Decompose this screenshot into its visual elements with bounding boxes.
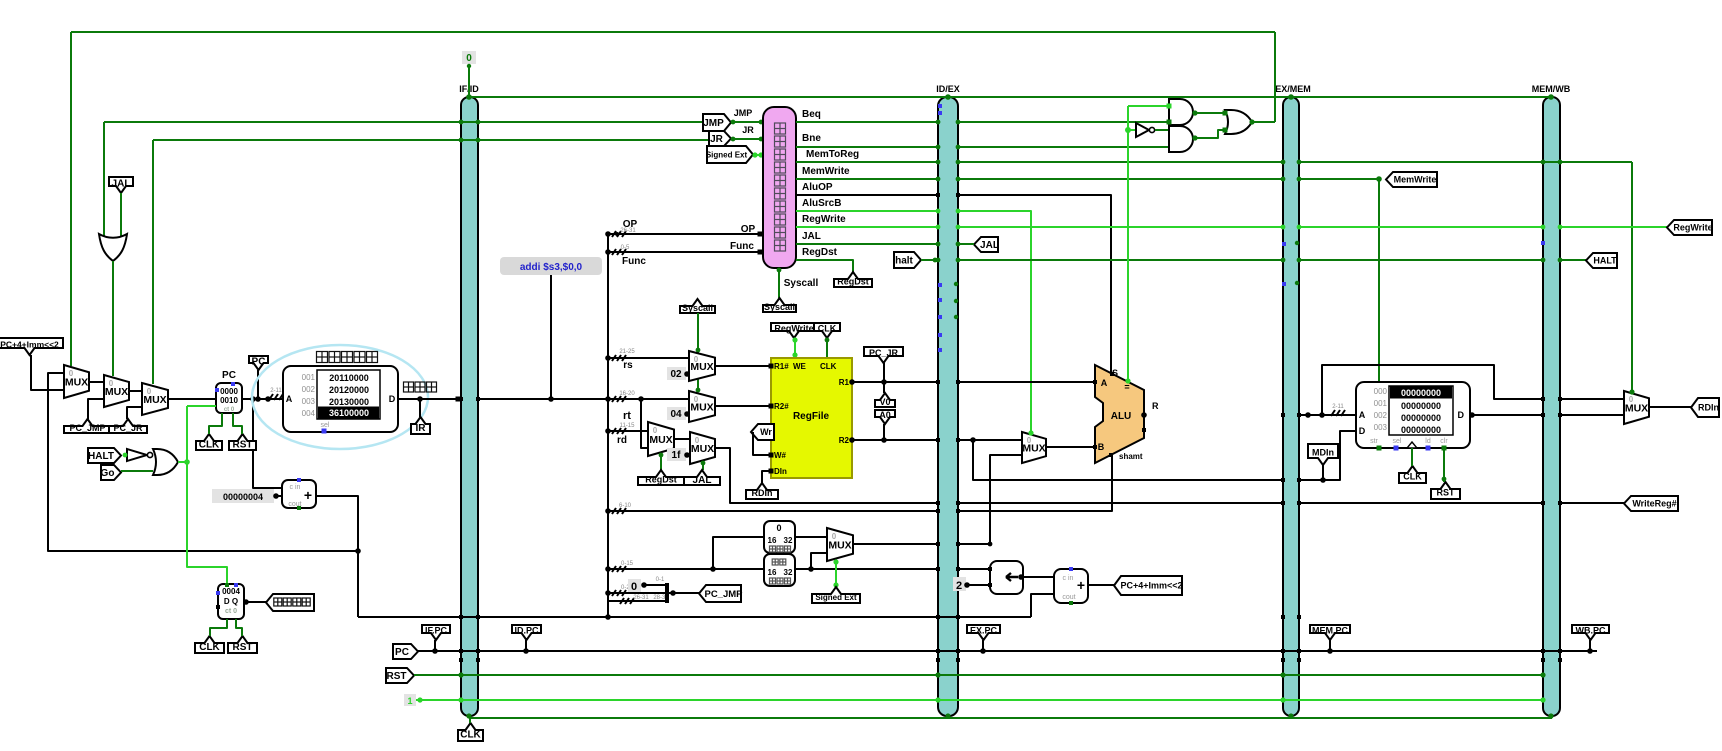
tunnel CLK under ram: [1399, 466, 1426, 483]
wire imm to zero extender: [713, 537, 764, 569]
wire zero ext out to mux: [795, 536, 827, 538]
tunnel RegWrite above regfile: [771, 323, 817, 338]
svg-text:2-11: 2-11: [270, 388, 282, 394]
wire or output to MUX2 select: [112, 261, 114, 376]
svg-text:Func: Func: [730, 241, 754, 252]
adder U_pc4 (PC+4): [282, 480, 316, 508]
tunnel MemWrite sink: [1386, 172, 1437, 187]
wire rt to regdst mux: [641, 399, 648, 448]
wire ALU result bypass loop to MEM/WB: [1322, 365, 1543, 415]
wire imm row after extender: [795, 568, 938, 570]
svg-text:Bne: Bne: [802, 133, 821, 144]
constant 0 jump low bits: [628, 579, 641, 592]
wire halt row WB: [1560, 259, 1586, 261]
wire R1 out: [852, 381, 938, 383]
tunnel PC_JMP: [64, 419, 111, 433]
svg-text:c in: c in: [1063, 575, 1074, 582]
constant 2 shift amount: [953, 577, 966, 591]
wire halt row EX: [958, 259, 1283, 261]
svg-text:02: 02: [670, 369, 682, 380]
mux M_w (dest / $ra jal): [690, 432, 715, 464]
svg-text:CLK: CLK: [818, 324, 837, 334]
wire PC probe stub: [257, 370, 259, 399]
shifter U_sll (imm<<2): [990, 561, 1023, 594]
wire halt row MEM: [1299, 259, 1543, 261]
svg-text:sel: sel: [1393, 438, 1402, 445]
and gate U_beq (beq & zero): [1169, 99, 1193, 125]
mux M_wb (MemToReg): [1624, 391, 1649, 424]
wire mem bypass row WB: [1560, 398, 1624, 400]
wire store data down and to EX/MEM: [973, 440, 1283, 480]
data memory RAM: [1356, 382, 1470, 448]
svg-text:2: 2: [956, 580, 962, 592]
svg-text:16-20: 16-20: [619, 391, 635, 397]
wire rt mux out to R2#: [715, 405, 771, 407]
svg-text:+: +: [1077, 577, 1085, 593]
svg-text:JAL: JAL: [693, 475, 712, 486]
svg-text:20110000: 20110000: [329, 373, 369, 383]
wire alusrcb to bmux select: [958, 211, 1031, 432]
svg-text:MemWrite: MemWrite: [802, 166, 850, 177]
mux M_ext (zero/sign extend select): [827, 528, 853, 561]
wire JAL tunnel to or gate: [120, 193, 122, 236]
MEM/WB pins: [1541, 160, 1546, 165]
tunnel PC_JMP source: [699, 585, 741, 602]
zero extender 16->32 扩展器: [764, 521, 795, 553]
wire R2 out: [852, 439, 938, 441]
tunnel JR into control: [709, 131, 731, 146]
svg-text:MUX: MUX: [65, 377, 88, 389]
svg-text:RegDst: RegDst: [802, 247, 838, 258]
svg-text:002: 002: [1374, 411, 1388, 420]
or-gate U_jalor (JMP|JAL -> PC_JMP mux sel): [99, 234, 127, 261]
wire regwrite to WE: [794, 338, 796, 358]
IF/ID pins: [459, 120, 464, 125]
EX/MEM pins: [1281, 160, 1286, 165]
svg-text:JMP: JMP: [703, 118, 724, 129]
svg-text:CLK: CLK: [1403, 472, 1422, 482]
svg-text:002: 002: [302, 385, 316, 394]
svg-text:00000000: 00000000: [1401, 401, 1441, 411]
svg-text:PC: PC: [252, 357, 266, 368]
wire signedext sel: [835, 561, 837, 587]
svg-text:PC: PC: [395, 647, 409, 658]
wire shamt 6-10 row: [608, 510, 938, 512]
tunnel Go: [101, 465, 121, 480]
wire A operand to ALU: [958, 381, 1095, 383]
control unit 单周期硬布线控制器: [763, 107, 796, 268]
svg-text:MDIn: MDIn: [1312, 448, 1334, 458]
wire imm 0-15 row: [608, 568, 764, 570]
svg-text:PC+4+Imm<<2: PC+4+Imm<<2: [0, 340, 59, 350]
mux M_b (reg/imm ALU B): [1022, 432, 1046, 463]
wire not out to and2: [1155, 129, 1169, 131]
wire store data to ram DIn: [1299, 431, 1356, 480]
svg-text:ALU: ALU: [1111, 411, 1132, 422]
tunnel HALT: [88, 448, 121, 463]
wire rst to counter: [236, 619, 242, 636]
wire pc+4 into branch adder: [1031, 594, 1054, 617]
tunnel PC bottom source: [393, 644, 418, 659]
svg-text:JMP: JMP: [734, 108, 753, 118]
wire sign ext out to mux: [811, 553, 827, 569]
wire ALU result row MEM: [1299, 414, 1356, 416]
svg-text:0010: 0010: [220, 396, 238, 405]
splitter 2-11 at instruction memory address: [269, 394, 273, 400]
svg-text:sel: sel: [321, 422, 330, 429]
svg-text:clr: clr: [1440, 438, 1448, 445]
wire regwrite row WB to tunnel: [1560, 226, 1667, 228]
wire RST row: [414, 674, 1543, 676]
svg-text:Signed Ext: Signed Ext: [706, 150, 748, 159]
constant 1f ($ra): [667, 448, 686, 461]
wire clk to regfile: [826, 338, 828, 358]
wire M2 out: [129, 390, 142, 392]
rst tunnel under PC: [229, 434, 256, 450]
svg-text:MUX: MUX: [828, 540, 851, 552]
svg-text:Syscall: Syscall: [764, 302, 795, 312]
svg-text:D: D: [1458, 410, 1465, 420]
wire PC out: [242, 398, 283, 400]
wire beq row to and gate: [958, 121, 1169, 123]
splitter 2-11 at data memory address: [1331, 410, 1335, 416]
wire rd mux out: [674, 438, 690, 440]
svg-text:D: D: [389, 394, 396, 404]
svg-text:00000000: 00000000: [1401, 413, 1441, 423]
wire writereg row WB: [1560, 502, 1624, 504]
wire imm row to shifter: [958, 568, 990, 570]
svg-text:RegWrite: RegWrite: [774, 324, 813, 334]
wire writereg to W#: [753, 432, 771, 455]
svg-text:MemToReg: MemToReg: [806, 149, 859, 160]
wire bmux out to ALU B: [1046, 446, 1095, 448]
svg-text:=: =: [1124, 382, 1129, 392]
wire B operand row: [958, 439, 1022, 441]
wire bne row to and gate: [958, 146, 1169, 148]
tunnel JMP into control: [703, 114, 731, 131]
instruction memory title 指令存储器: [317, 352, 328, 363]
svg-text:04: 04: [670, 409, 682, 420]
svg-text:CLK: CLK: [199, 440, 220, 451]
tunnel EX.PC: [967, 625, 1000, 640]
tunnel halt into ID/EX: [894, 252, 921, 268]
ellipse highlight around instruction memory: [252, 345, 428, 449]
wire jal mux sel: [702, 464, 704, 470]
tunnel ID.PC: [512, 625, 541, 640]
wire run enable: [178, 461, 187, 463]
svg-text:str: str: [1370, 438, 1378, 445]
svg-text:Syscall: Syscall: [784, 278, 819, 289]
svg-text:RDIn: RDIn: [752, 488, 773, 498]
svg-text:MemWrite: MemWrite: [1394, 175, 1437, 185]
svg-text:A0: A0: [879, 410, 891, 420]
svg-text:A: A: [1101, 378, 1108, 388]
pc enable wire from run gate: [187, 405, 216, 407]
wire clk to counter: [210, 619, 227, 636]
pipeline register MEM/WB: [1543, 97, 1560, 716]
wire and1 out: [1193, 112, 1225, 114]
svg-text:Signed Ext: Signed Ext: [815, 593, 857, 602]
tunnel RDIn sink: [1691, 398, 1719, 417]
tunnel IF.PC: [422, 625, 450, 640]
svg-text:R2: R2: [839, 436, 850, 445]
svg-text:D Q: D Q: [224, 597, 238, 606]
pipeline register EX/MEM: [1283, 97, 1299, 716]
ID/EX pins left: [936, 120, 941, 125]
wire OP field row: [608, 233, 763, 235]
svg-text:26-31: 26-31: [633, 595, 649, 601]
svg-text:rt: rt: [623, 410, 631, 422]
svg-text:W#: W#: [774, 451, 787, 460]
wire JMP row: [104, 121, 705, 123]
wire shamt to ALU: [958, 455, 1112, 511]
svg-text:PC+4+Imm<<2: PC+4+Imm<<2: [1120, 581, 1182, 591]
constant 04 ($a0): [667, 407, 686, 420]
wire memtoreg down to wb mux sel: [1631, 162, 1633, 391]
wire rs field row: [608, 357, 689, 359]
svg-text:Func: Func: [622, 256, 646, 267]
pipeline register IF/ID: [461, 97, 478, 716]
svg-text:WriteReg#: WriteReg#: [1632, 499, 1676, 509]
svg-text:CLK: CLK: [820, 362, 837, 371]
wire alu result row WB: [1560, 414, 1624, 416]
svg-text:V0: V0: [879, 397, 890, 407]
svg-text:2-11: 2-11: [1332, 404, 1344, 410]
wire Func field row: [608, 251, 763, 253]
sign extender 16->32 符号扩展器: [764, 554, 795, 586]
tunnel Wr (WriteReg# into W#): [751, 424, 774, 440]
svg-text:WE: WE: [793, 362, 807, 371]
svg-text:ct 0: ct 0: [224, 407, 235, 413]
label 指令字: [404, 382, 414, 392]
svg-text:ct 0: ct 0: [225, 608, 237, 615]
constant 00000004: [212, 489, 274, 503]
svg-text:R: R: [1152, 401, 1159, 411]
svg-text:EX/MEM: EX/MEM: [1275, 84, 1311, 94]
and gate U_bne (bne & !zero): [1169, 126, 1193, 152]
svg-text:HALT: HALT: [1593, 256, 1617, 266]
wire jump addr 0-25 row: [608, 592, 667, 594]
tunnel JAL (to jal-or gate): [109, 177, 133, 193]
tunnel Syscall sink: [763, 298, 796, 312]
tunnel JAL source: [684, 470, 720, 485]
svg-text:JR: JR: [742, 125, 754, 135]
svg-text:MUX: MUX: [143, 394, 166, 406]
tunnel PC_JR: [109, 419, 147, 433]
svg-text:1: 1: [407, 696, 412, 706]
svg-text:MUX: MUX: [690, 402, 713, 414]
wire CLK row along register bottoms: [470, 717, 1552, 719]
wire memtoreg row MEM: [1299, 161, 1632, 163]
wire 0 to IF/ID top: [468, 64, 470, 97]
svg-text:RDIn: RDIn: [1698, 403, 1719, 413]
svg-text:00000004: 00000004: [223, 492, 263, 502]
svg-text:JAL: JAL: [112, 179, 131, 190]
register cycle counter: [218, 584, 244, 619]
constant 1 run: [404, 694, 416, 706]
constant 0 flush pin: [462, 51, 476, 64]
svg-text:cout: cout: [1062, 594, 1075, 601]
tunnel HALT sink: [1586, 253, 1617, 268]
wire branch taken out: [1252, 121, 1275, 123]
svg-text:ID.PC: ID.PC: [514, 626, 539, 636]
pipeline register ID/EX: [938, 97, 958, 716]
tunnel RST bottom source: [386, 668, 414, 683]
wire zero flag up to branch gates: [1127, 130, 1129, 383]
wire and2 out: [1193, 130, 1225, 138]
wire PC_JR to M3: [127, 407, 142, 419]
instruction memory ROM: [283, 366, 398, 432]
svg-text:addi $s3,$0,0: addi $s3,$0,0: [520, 262, 583, 273]
svg-text:WB.PC: WB.PC: [1576, 626, 1606, 636]
svg-text:Beq: Beq: [802, 109, 821, 120]
svg-text:PC_JR: PC_JR: [869, 348, 899, 358]
svg-text:rs: rs: [623, 360, 633, 371]
svg-text:RST: RST: [1437, 488, 1456, 498]
wire IR stub: [419, 399, 421, 417]
tunnel RDIn source for DIn: [746, 483, 778, 499]
wire JR row: [153, 139, 711, 141]
register PC: [216, 383, 242, 413]
svg-text:1f: 1f: [672, 450, 682, 461]
svg-text:R1#: R1#: [774, 362, 789, 371]
svg-text:MUX: MUX: [1022, 443, 1045, 455]
label PC+4+Imm<<2 (branch target tunnel): [0, 338, 63, 355]
svg-text:RegDst: RegDst: [645, 475, 677, 485]
tunnel RegDst source: [638, 470, 684, 485]
svg-text:0-15: 0-15: [621, 561, 634, 567]
svg-text:0: 0: [776, 523, 781, 533]
mux M3 jr select: [142, 383, 168, 415]
svg-text:ld: ld: [1425, 438, 1431, 445]
svg-text:RegWrite: RegWrite: [802, 214, 846, 225]
svg-text:HALT: HALT: [88, 451, 114, 462]
constant 02 ($v0): [667, 367, 686, 380]
wire branch target to mux B1 input: [31, 355, 64, 390]
svg-text:CLK: CLK: [199, 642, 220, 653]
wire branch-taken to PC mux select: [71, 31, 1275, 33]
svg-text:003: 003: [1374, 423, 1388, 432]
wire pc_jr stub: [883, 363, 885, 382]
svg-text:RST: RST: [233, 440, 253, 451]
svg-text:00000000: 00000000: [1401, 388, 1441, 398]
mux M_rt (rt / $a0): [689, 391, 715, 422]
pc row pins at bars: [459, 649, 463, 653]
wire ram data out to MEM/WB: [1470, 414, 1543, 416]
svg-text:0-1: 0-1: [656, 577, 665, 583]
svg-text:RegWrite: RegWrite: [1673, 223, 1712, 233]
svg-text:21-25: 21-25: [619, 349, 635, 355]
svg-text:26-31: 26-31: [620, 228, 636, 234]
svg-text:PC_JMP: PC_JMP: [69, 423, 105, 433]
wire branch target out: [1088, 584, 1114, 586]
wire PC+4 to mux A input: [48, 373, 358, 551]
svg-text:11-15: 11-15: [620, 423, 636, 429]
wire jump addr high bits row: [608, 600, 667, 602]
tunnel RegWrite sink right: [1667, 220, 1712, 235]
svg-text:Syscall: Syscall: [682, 303, 713, 313]
mux M_rd (rt / rd regdst): [648, 422, 674, 456]
wire imm32 to bmux: [958, 455, 1022, 544]
svg-text:IR: IR: [416, 423, 427, 434]
wire counter out: [244, 601, 266, 603]
svg-text:MEM/WB: MEM/WB: [1532, 84, 1571, 94]
wire PC+4 out: [316, 496, 358, 617]
svg-text:001: 001: [302, 373, 316, 382]
wire run row: [416, 699, 1543, 701]
wire shifter out to branch adder: [1023, 576, 1054, 578]
svg-text:IF.PC: IF.PC: [425, 626, 448, 636]
svg-text:shamt: shamt: [1119, 452, 1143, 461]
svg-text:c in: c in: [290, 484, 301, 491]
svg-text:004: 004: [302, 409, 316, 418]
svg-text:RegFile: RegFile: [793, 411, 830, 422]
svg-text:Wr: Wr: [760, 427, 772, 437]
svg-text:JAL: JAL: [980, 240, 999, 251]
wire clk to PC: [209, 413, 222, 434]
wire zero to not gate: [1128, 129, 1136, 131]
svg-text:003: 003: [302, 397, 316, 406]
tunnel Syscall source above rs mux: [680, 299, 715, 313]
wire imm32 to ID/EX: [853, 543, 938, 545]
ID/EX floating pins: [938, 104, 942, 108]
tunnel MDIn probe: [1308, 444, 1338, 465]
tunnel probe V0: [875, 393, 895, 407]
tunnel WB.PC: [1572, 625, 1609, 640]
svg-text:R2#: R2#: [774, 402, 789, 411]
svg-text:0000: 0000: [220, 387, 238, 396]
wire rt field row: [612, 396, 616, 402]
tunnel probe A0: [875, 410, 895, 424]
svg-text:0: 0: [631, 581, 637, 593]
wire instr word ID segment: [478, 398, 689, 400]
mux M1 branch select: [64, 365, 89, 398]
wire addi const to instr bus: [550, 275, 552, 399]
tunnel CLK bottom source: [458, 723, 483, 741]
ID/EX pins right: [956, 120, 961, 125]
wire M3 out to PC register: [168, 398, 216, 400]
svg-text:+: +: [304, 487, 312, 503]
wire rs mux out to R1#: [715, 365, 771, 367]
svg-text:20130000: 20130000: [329, 397, 369, 407]
svg-text:rd: rd: [617, 435, 627, 446]
wire rdin to DIn: [762, 471, 771, 483]
wire regwrite row MEM: [1299, 226, 1543, 228]
alu U_alu: [1095, 365, 1144, 463]
svg-text:0: 0: [466, 53, 472, 64]
wire flush row along register tops: [469, 96, 1551, 98]
svg-text:DIn: DIn: [774, 467, 787, 476]
constant instruction label addi $s3,$0,0: [500, 257, 602, 275]
svg-text:MUX: MUX: [649, 434, 672, 446]
svg-text:32: 32: [784, 568, 793, 577]
mux M2 jump select: [104, 375, 129, 407]
wire PC row: [418, 650, 1597, 652]
svg-text:16: 16: [768, 568, 777, 577]
mux M_rs (rs / $v0): [689, 351, 715, 381]
wire memwrite row EX: [958, 178, 1283, 180]
splitter merge for jump target: [665, 583, 669, 603]
tunnel IR: [411, 417, 430, 434]
svg-text:32: 32: [784, 536, 793, 545]
or gate U_branch: [1225, 110, 1252, 134]
wire rst to PC: [233, 413, 242, 434]
svg-text:R1: R1: [839, 378, 850, 387]
svg-text:B: B: [1098, 442, 1105, 452]
svg-text:RegDst: RegDst: [837, 277, 869, 287]
wire aluop to ALU S: [958, 195, 1111, 374]
tunnel JAL sink idex: [974, 237, 998, 252]
